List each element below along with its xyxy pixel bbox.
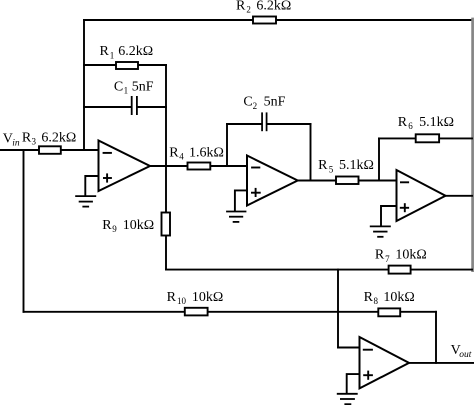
svg-text:C25nF: C25nF <box>243 95 285 111</box>
svg-text:R910kΩ: R910kΩ <box>102 218 154 234</box>
svg-text:R16.2kΩ: R16.2kΩ <box>100 44 154 60</box>
svg-text:R65.1kΩ: R65.1kΩ <box>398 115 454 131</box>
svg-text:R26.2kΩ: R26.2kΩ <box>236 0 291 15</box>
svg-text:R810kΩ: R810kΩ <box>364 290 415 306</box>
svg-text:R41.6kΩ: R41.6kΩ <box>169 145 224 161</box>
svg-text:R55.1kΩ: R55.1kΩ <box>318 158 374 174</box>
svg-text:R1010kΩ: R1010kΩ <box>167 290 224 306</box>
svg-text:C15nF: C15nF <box>114 79 154 95</box>
svg-text:R710kΩ: R710kΩ <box>375 248 427 264</box>
svg-text:R36.2kΩ: R36.2kΩ <box>22 130 76 146</box>
